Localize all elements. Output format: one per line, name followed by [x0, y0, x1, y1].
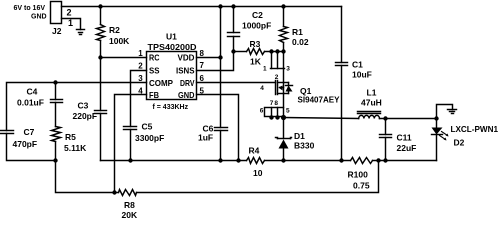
svg-text:1: 1 — [68, 18, 73, 28]
C2 value 1000pF — [242, 20, 271, 30]
D2 refdes label — [454, 138, 465, 148]
wire SS pin 2 — [131, 71, 147, 127]
C4 label — [27, 86, 38, 96]
svg-text:2: 2 — [275, 74, 279, 81]
U1 pin name ISNS — [176, 66, 195, 76]
R8 label — [124, 200, 135, 210]
svg-text:6: 6 — [260, 107, 264, 114]
U1 pin number 1 — [138, 49, 143, 58]
R1 label — [292, 27, 303, 37]
wire J2 pin1 to ground — [62, 19, 81, 30]
op-amp U1 TPS40200D box — [147, 52, 197, 100]
svg-text:GND: GND — [178, 90, 195, 100]
J2 pin 2 number — [67, 7, 72, 17]
L1 value 47uH — [361, 97, 382, 107]
svg-text:10: 10 — [253, 168, 263, 178]
wire ground rail right — [373, 160, 437, 162]
capacitor C7 — [1, 131, 56, 161]
svg-text:C2: C2 — [252, 10, 263, 20]
junction Q1 source pin 1 — [269, 49, 273, 53]
C11 value 22uF — [397, 143, 417, 153]
svg-text:SI9407AEY: SI9407AEY — [298, 94, 340, 104]
wire switch node — [284, 118, 359, 119]
svg-text:1: 1 — [138, 49, 143, 58]
svg-text:5: 5 — [286, 107, 290, 114]
U1 pin name GND — [178, 90, 195, 100]
inductor L1 — [358, 112, 381, 119]
svg-text:22uF: 22uF — [397, 143, 417, 153]
junction top rail / C2 — [231, 4, 235, 8]
svg-text:ISNS: ISNS — [176, 66, 195, 76]
wire ISNS pin 7 — [197, 52, 234, 71]
svg-text:U1: U1 — [166, 32, 177, 42]
U1 refdes label — [166, 32, 177, 42]
Q1 pin number 7 — [270, 100, 274, 107]
svg-text:2: 2 — [67, 7, 72, 17]
svg-text:20K: 20K — [122, 210, 138, 219]
svg-text:B330: B330 — [294, 140, 315, 150]
svg-text:COMP: COMP — [149, 78, 173, 88]
U1 pin name DRV — [180, 78, 195, 88]
diode D1 B330 schottky — [276, 118, 292, 161]
svg-text:5.11K: 5.11K — [64, 143, 87, 153]
Q1 pin number 4 — [260, 85, 264, 92]
junction L1 output / C11 — [383, 116, 387, 120]
svg-text:D1: D1 — [294, 131, 305, 141]
LED D2 LXCL-PWN1 — [432, 119, 449, 161]
svg-text:TPS40200D: TPS40200D — [148, 42, 197, 52]
R2 value 100K — [109, 36, 130, 46]
svg-text:0.02: 0.02 — [292, 37, 309, 47]
svg-text:SS: SS — [149, 66, 160, 76]
svg-text:1K: 1K — [250, 56, 262, 66]
svg-text:6V to 16V: 6V to 16V — [14, 5, 46, 12]
svg-text:LXCL-PWN1: LXCL-PWN1 — [451, 124, 499, 134]
capacitor C5 — [124, 127, 137, 161]
wire R8 to sense node — [137, 161, 379, 193]
R2 label — [109, 25, 120, 35]
svg-text:L1: L1 — [367, 87, 377, 97]
junction Q1 source pin 3 — [281, 49, 285, 53]
svg-text:2: 2 — [138, 62, 143, 71]
input voltage label 6V to 16V — [14, 5, 46, 12]
wire GND pin 5 — [197, 95, 239, 161]
svg-text:RC: RC — [149, 53, 160, 63]
Q1 drain pin ladder — [265, 108, 284, 117]
C5 value 3300pF — [135, 133, 164, 143]
junction GND pin5 / ground rail — [236, 158, 240, 162]
svg-text:4: 4 — [260, 85, 264, 92]
svg-text:0.01uF: 0.01uF — [17, 98, 44, 108]
Q1 pin number 2 — [275, 74, 279, 81]
R3 label — [250, 39, 261, 49]
svg-text:220pF: 220pF — [73, 111, 98, 121]
junction C11 / ground rail — [383, 158, 387, 162]
D2 part number LXCL-PWN1 — [451, 124, 499, 134]
U1 pin number 6 — [200, 74, 205, 83]
svg-text:C11: C11 — [397, 132, 412, 142]
svg-text:DRV: DRV — [180, 78, 195, 88]
U1 frequency label f = 433KHz — [153, 104, 189, 111]
resistor R2 — [97, 7, 105, 58]
capacitor C4 — [51, 83, 63, 127]
junction R5/C7/FB node — [53, 158, 57, 162]
junction D1 / ground rail — [281, 158, 285, 162]
svg-text:f = 433KHz: f = 433KHz — [153, 104, 189, 111]
C7 label — [24, 127, 35, 137]
capacitor C11 — [380, 119, 392, 161]
U1 pin number 8 — [200, 49, 205, 58]
wire Q1 source stubs — [271, 52, 285, 69]
svg-text:C3: C3 — [78, 101, 89, 111]
svg-text:10uF: 10uF — [352, 69, 372, 79]
svg-text:GND: GND — [31, 14, 47, 21]
wire COMP pin 3 — [7, 83, 147, 131]
svg-text:3: 3 — [286, 66, 290, 73]
wire ground rail — [101, 160, 247, 162]
Q1 pin number 6 — [260, 107, 264, 114]
J2 label — [52, 26, 62, 36]
Q1 refdes label — [300, 86, 312, 96]
U1 pin name SS — [149, 66, 160, 76]
junction top rail / VDD branch — [218, 4, 222, 8]
svg-text:D2: D2 — [454, 138, 465, 148]
svg-text:1000pF: 1000pF — [242, 20, 271, 30]
resistor R5 — [52, 127, 61, 161]
capacitor C6 — [215, 128, 228, 161]
wire ground rail middle — [265, 160, 351, 162]
junction VDD / C6 branch — [218, 55, 222, 59]
R100 value 0.75 — [353, 180, 370, 190]
svg-text:C7: C7 — [24, 127, 35, 137]
wire DRV pin 6 (gate drive) — [197, 82, 275, 84]
R8 value 20K — [122, 210, 138, 220]
junction output / LED / ground branch — [434, 116, 438, 120]
R3 value 1K — [250, 56, 262, 66]
svg-text:R3: R3 — [250, 39, 261, 49]
junction C1 / ground rail — [339, 158, 343, 162]
C11 label — [397, 132, 412, 142]
U1 pin name VDD — [178, 53, 195, 63]
C1 label — [352, 59, 363, 69]
svg-text:C1: C1 — [352, 59, 363, 69]
U1 part number TPS40200D — [148, 42, 197, 52]
resistor R3 — [234, 49, 284, 55]
junction RC node — [98, 55, 102, 59]
transistor Q1 Si9407AEY P-MOSFET — [276, 69, 293, 108]
svg-text:C4: C4 — [27, 86, 38, 96]
svg-text:1uF: 1uF — [198, 133, 213, 143]
U1 pin name FB — [149, 90, 159, 100]
R1 value 0.02 — [292, 37, 309, 47]
U1 pin number 7 — [200, 61, 205, 70]
junction FB / R8 — [112, 190, 116, 194]
resistor R100 — [351, 158, 373, 164]
svg-text:FB: FB — [149, 90, 159, 100]
wire FB pin 4 — [115, 95, 147, 193]
C3 value 220pF — [73, 111, 98, 121]
svg-text:R4: R4 — [249, 146, 260, 156]
svg-text:7: 7 — [200, 61, 205, 70]
junction C2/R3/ISNS node — [231, 49, 235, 53]
svg-text:R100: R100 — [348, 170, 369, 180]
resistor R4 — [247, 158, 265, 164]
ground symbol at J2 — [77, 30, 85, 35]
capacitor C2 — [228, 7, 240, 52]
svg-text:J2: J2 — [52, 26, 62, 36]
capacitor C1 — [336, 7, 348, 161]
U1 pin name COMP — [149, 78, 173, 88]
svg-text:8: 8 — [274, 100, 278, 107]
wire VDD pin 8 — [197, 57, 221, 59]
junction Q1 drain pins — [269, 115, 286, 120]
wire output to ground symbol — [437, 105, 453, 119]
U1 pin number 5 — [200, 87, 205, 96]
C6 value 1uF — [198, 133, 213, 143]
C5 label — [142, 122, 153, 132]
Q1 pin number 3 — [286, 66, 290, 73]
C1 value 10uF — [352, 69, 372, 79]
R5 label — [65, 132, 76, 142]
U1 pin number 4 — [138, 87, 143, 96]
svg-text:3300pF: 3300pF — [135, 133, 164, 143]
wire FB net down-right — [56, 161, 115, 193]
svg-text:0.75: 0.75 — [353, 180, 370, 190]
R4 label — [249, 146, 260, 156]
wire RC pin 1 — [101, 57, 147, 59]
svg-text:R2: R2 — [109, 25, 120, 35]
svg-text:1: 1 — [263, 66, 267, 73]
R100 label — [348, 170, 369, 180]
svg-text:8: 8 — [200, 49, 205, 58]
capacitor C3 — [95, 58, 107, 161]
svg-text:C5: C5 — [142, 122, 153, 132]
svg-text:47uH: 47uH — [361, 97, 382, 107]
svg-text:R1: R1 — [292, 27, 303, 37]
D1 label — [294, 131, 305, 141]
junction COMP / C4 — [53, 80, 57, 84]
svg-text:100K: 100K — [109, 36, 130, 46]
U1 pin name RC — [149, 53, 160, 63]
J2 pin 1 number — [68, 18, 73, 28]
wire top input rail — [62, 6, 342, 8]
Q1 pin number 1 — [263, 66, 267, 73]
svg-text:R5: R5 — [65, 132, 76, 142]
junction Q1 source pin 2 — [275, 49, 279, 53]
R5 value 5.11K — [64, 143, 87, 153]
C3 label — [78, 101, 89, 111]
Q1 part number Si9407AEY — [298, 94, 340, 104]
svg-text:470pF: 470pF — [13, 139, 38, 149]
C7 value 470pF — [13, 139, 38, 149]
junction top rail / R1 — [281, 4, 285, 8]
junction R8 return / rail — [376, 158, 380, 162]
connector J2 — [51, 2, 62, 24]
U1 pin number 3 — [138, 74, 143, 83]
svg-text:VDD: VDD — [178, 53, 195, 63]
C6 label — [203, 123, 214, 133]
R4 value 10 — [253, 168, 263, 178]
C4 value 0.01uF — [17, 98, 44, 108]
resistor R8 — [115, 190, 137, 196]
wire output node — [380, 118, 437, 120]
U1 pin number 2 — [138, 62, 143, 71]
junction C5 / ground rail — [128, 158, 132, 162]
C2 label — [252, 10, 263, 20]
junction top rail / R2 — [98, 4, 102, 8]
Q1 pin number 8 — [274, 100, 278, 107]
junction C6 / ground rail — [218, 158, 222, 162]
svg-text:R8: R8 — [124, 200, 135, 210]
ground symbol at output — [448, 110, 457, 114]
svg-text:7: 7 — [270, 100, 274, 107]
Q1 pin number 5 — [286, 107, 290, 114]
resistor R1 — [280, 7, 288, 52]
L1 label — [367, 87, 377, 97]
GND label — [31, 14, 47, 21]
D1 value B330 — [294, 140, 315, 150]
wire VDD branch vertical — [220, 7, 222, 128]
